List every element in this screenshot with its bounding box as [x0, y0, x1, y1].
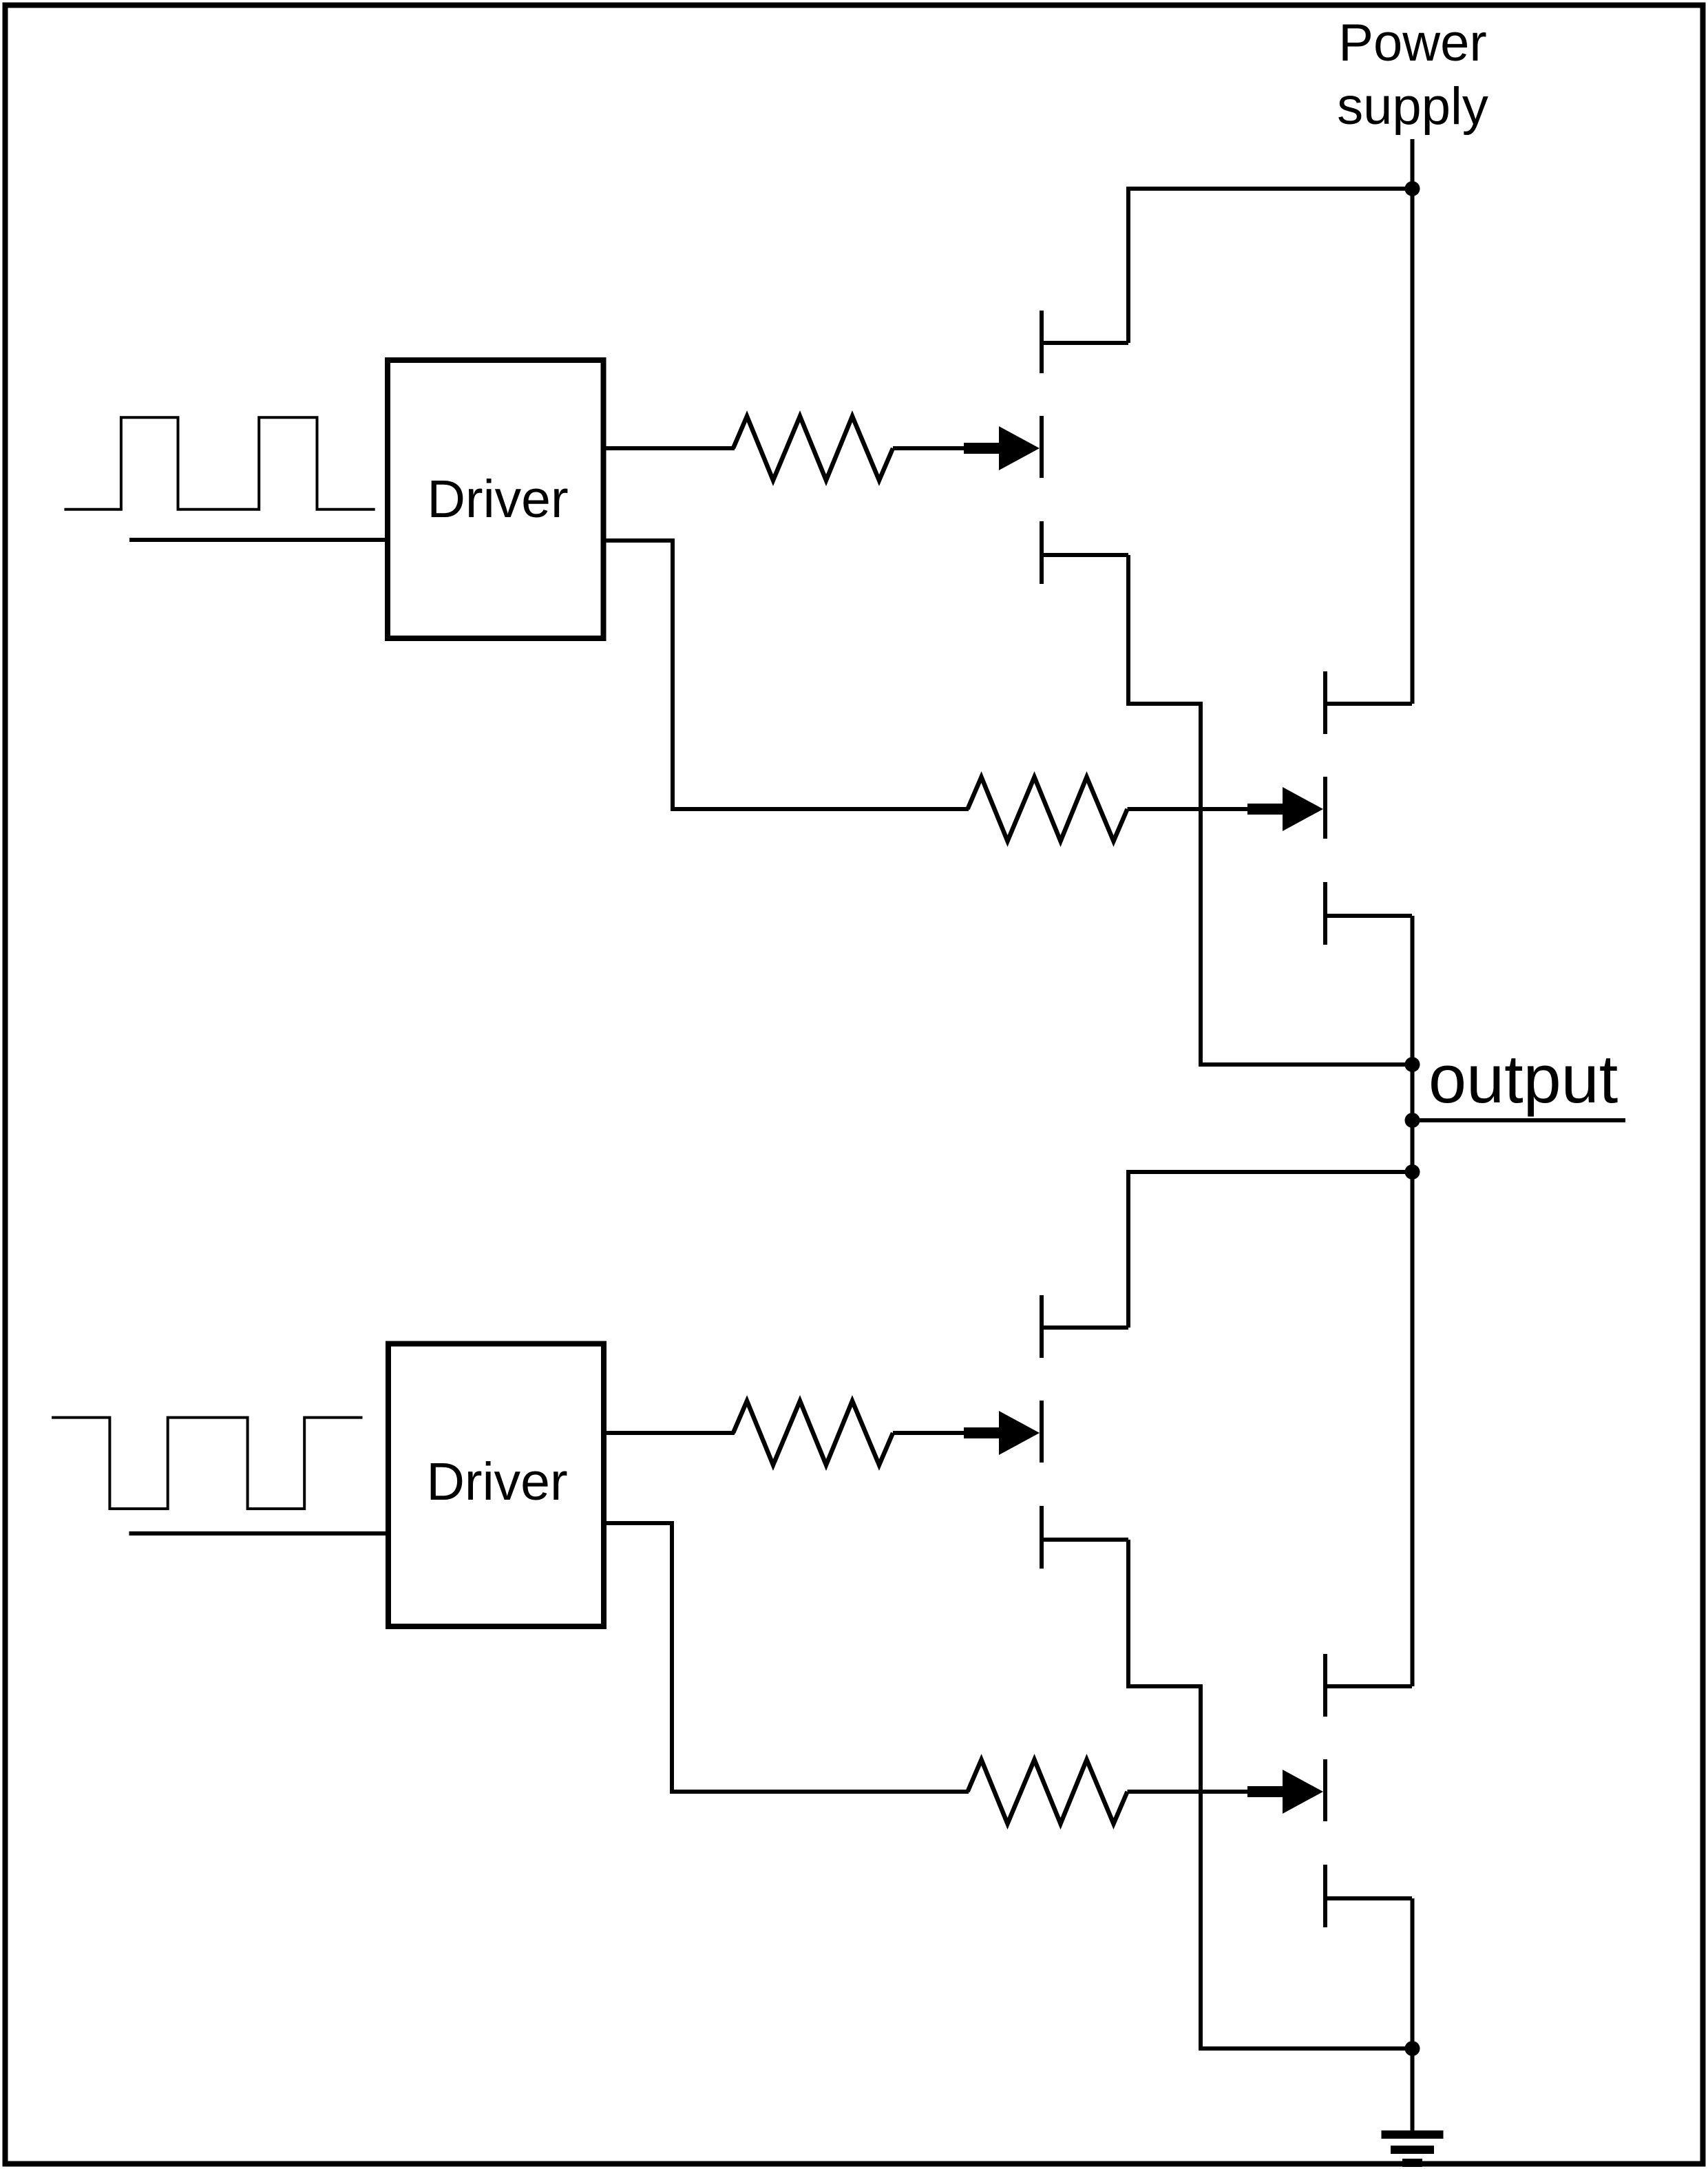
wire: driver U2 output 2 down to resistor R4 [604, 1523, 969, 1792]
wire: resistor R2 to gate arrow of Q2 [1128, 807, 1264, 811]
wire: driver U1 output 1 to resistor R1 [604, 446, 735, 450]
resistor R1 (gate resistor of Q1) [733, 417, 893, 481]
wire: output stub line [1413, 1118, 1626, 1122]
transistor Q1 (upper switch A) with gate arrow [964, 311, 1128, 584]
wire: Q1 drain up to power rail [1128, 189, 1413, 343]
node: Q3 drain junction dot [1405, 1164, 1420, 1180]
wire: driver U1 output 2 down to resistor R2 [604, 541, 969, 809]
wire: resistor R1 to gate arrow of Q1 [893, 446, 981, 450]
wire: Q1 source down and over to output node [1128, 555, 1413, 1065]
wire: power supply rail [1411, 139, 1415, 704]
wire: Q3 drain up to output node [1128, 1172, 1413, 1328]
wire: resistor R4 to gate arrow of Q4 [1128, 1790, 1264, 1794]
wire: Q4 source down to ground node [1411, 1898, 1415, 2048]
svg-text:output: output [1428, 1040, 1618, 1117]
wire: input line 2 into driver U2 [129, 1531, 389, 1536]
svg-text:Driver: Driver [426, 1452, 567, 1511]
resistor R4 (gate resistor of Q4) [968, 1760, 1128, 1824]
svg-text:supply: supply [1337, 77, 1488, 136]
node: Q1 source junction dot [1405, 1057, 1420, 1072]
node: output junction dot [1405, 1113, 1420, 1128]
input square-wave 2 (PWM signal, pulses low) [52, 1418, 362, 1509]
svg-text:Driver: Driver [427, 470, 568, 529]
driver U2 box [388, 1344, 604, 1627]
driver U1 box [388, 360, 604, 638]
wire: resistor R3 to gate arrow of Q3 [893, 1431, 981, 1435]
wire: output rail vertical [1411, 916, 1415, 1686]
transistor Q4 (lower switch B) with gate arrow [1247, 1654, 1412, 1927]
transistor Q3 (lower switch A) with gate arrow [964, 1295, 1128, 1569]
node: power rail junction dot [1405, 181, 1420, 196]
wire: driver U2 output 1 to resistor R3 [604, 1431, 735, 1435]
transistor Q2 (upper switch B) with gate arrow [1247, 671, 1412, 945]
resistor R3 (gate resistor of Q3) [733, 1401, 893, 1465]
resistor R2 (gate resistor of Q2) [968, 777, 1128, 841]
ground symbol [1382, 2135, 1444, 2163]
wire: input line 1 into driver U1 [129, 538, 388, 542]
svg-text:Power: Power [1338, 14, 1486, 72]
wire: stub to ground symbol [1411, 2048, 1415, 2133]
input square-wave 1 (PWM signal, pulses high) [64, 417, 375, 510]
node: ground junction dot [1405, 2041, 1420, 2056]
wire: Q3 source down and over to ground rail [1128, 1540, 1413, 2048]
